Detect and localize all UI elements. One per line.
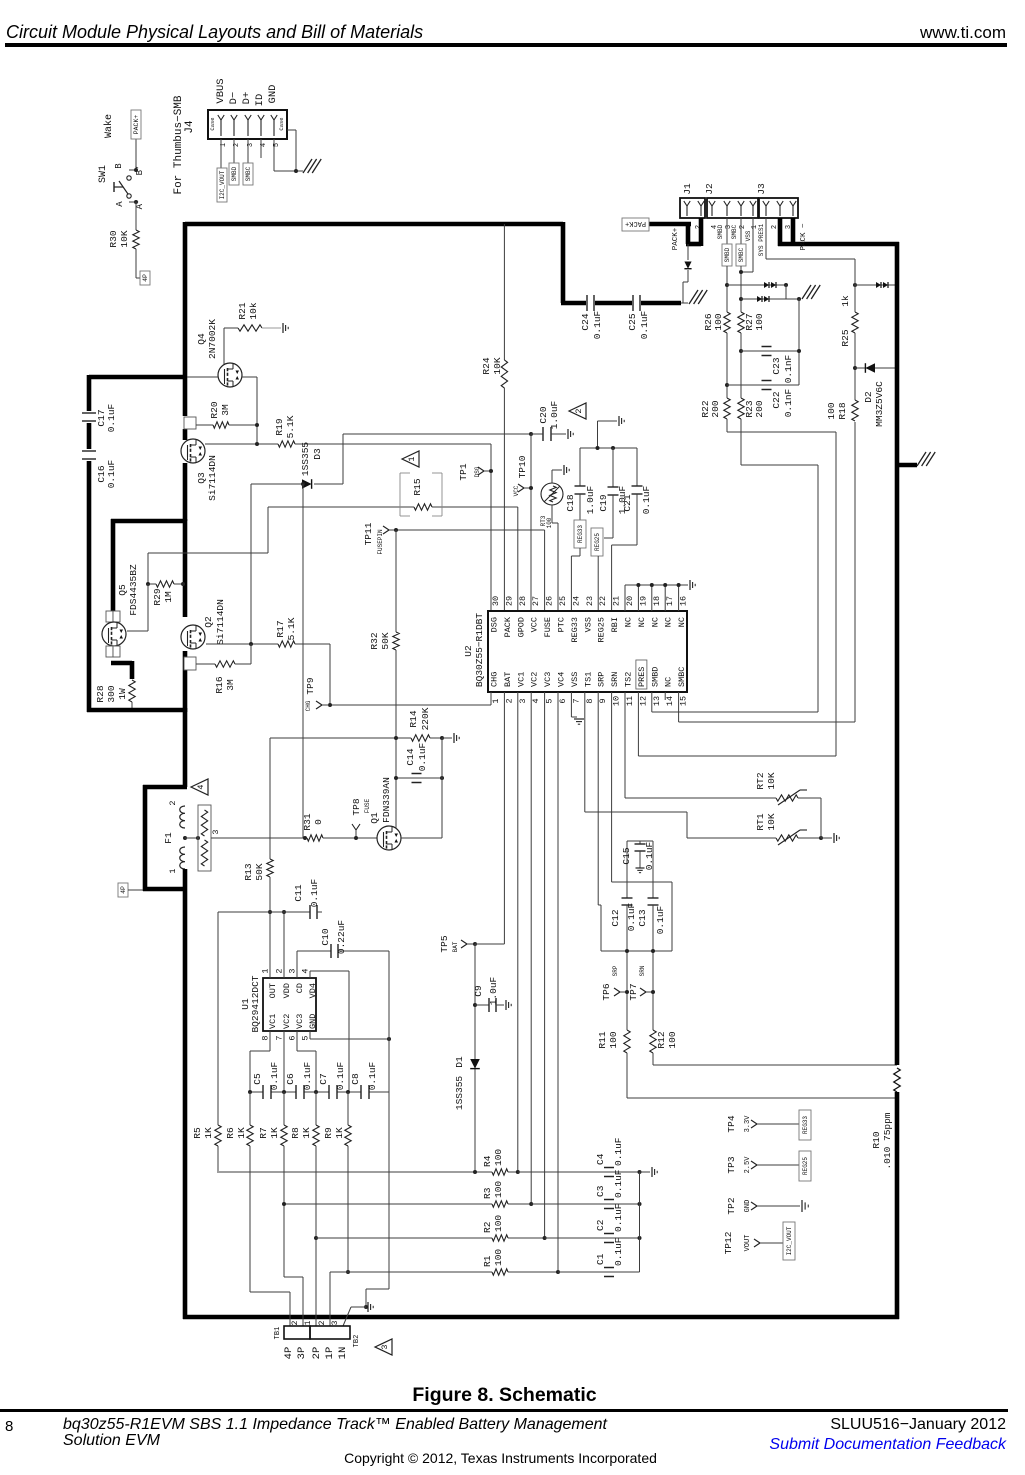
svg-text:VC2: VC2 [282,1014,292,1029]
svg-text:C10: C10 [320,928,331,945]
svg-text:TP10: TP10 [517,455,528,478]
svg-text:J1: J1 [682,183,693,195]
wire R29 to Q5 gate [147,584,149,631]
svg-text:3: 3 [211,829,221,834]
svg-text:R9: R9 [323,1127,334,1139]
svg-text:R8: R8 [290,1127,301,1139]
node R14 left [394,736,398,740]
wire NC stub [624,585,626,611]
svg-text:TP8: TP8 [351,798,362,815]
node SMBD C22 [725,383,729,387]
resistor R1 [492,1269,508,1275]
svg-text:10K: 10K [492,357,503,374]
resistor R8 [313,1125,319,1146]
wire pin2 BAT column [503,692,505,944]
pin of J1 [700,206,702,216]
diode pair row3 [876,282,881,288]
svg-text:0.1uF: 0.1uF [269,1061,280,1090]
svg-text:SRP: SRP [597,672,607,687]
svg-text:R29: R29 [152,588,163,605]
resistor R23 [738,398,744,419]
resistor R14 [411,735,430,741]
transistor Q3 [181,439,205,463]
connector TB2 [310,1326,350,1339]
wire diode to chain [687,270,689,282]
svg-text:1SS355: 1SS355 [454,1076,465,1111]
svg-text:R24: R24 [481,357,492,374]
resistor R22 [724,398,730,419]
wire B' stub [129,169,136,171]
node C2 right [638,1236,642,1240]
ground C4 row [651,1167,653,1177]
svg-text:200: 200 [710,400,721,417]
svg-text:2P: 2P [311,1347,323,1360]
svg-text:TP5: TP5 [439,935,450,952]
svg-text:Q4: Q4 [196,333,207,345]
svg-text:1.0uF: 1.0uF [488,976,499,1005]
svg-text:50K: 50K [380,632,391,649]
connector J3 [759,198,798,218]
node Q2 gate R16 [249,642,253,646]
resistor R9 [345,1125,351,1146]
svg-text:0.1uF: 0.1uF [302,1061,313,1090]
svg-text:DSG: DSG [474,466,481,477]
wire REG header riser [597,421,599,448]
svg-text:VCC: VCC [530,617,540,632]
wire NC stub [678,585,680,611]
wire pin8 TS1 column [584,692,586,812]
svg-text:0.1nF: 0.1nF [783,354,794,383]
wire row R1 [330,1271,492,1273]
svg-text:1.0uF: 1.0uF [585,485,596,514]
wire RT1 row [687,837,776,839]
wire J4 pin2 [233,139,235,163]
wire thick left border upper [183,222,188,416]
label REG25 boxed TP3 [799,1151,811,1181]
wire thick branch C17 [89,375,185,380]
svg-text:C11: C11 [293,884,304,901]
svg-text:24: 24 [571,596,581,606]
svg-text:SMBC: SMBC [731,224,738,239]
svg-text:2: 2 [318,1320,327,1325]
svg-text:100: 100 [493,1149,504,1166]
resistor R2 [492,1235,508,1241]
node D3 tap [301,482,305,486]
op-amp U1 body [263,978,316,1031]
wire cap row C5-C8 [250,1091,263,1093]
pin of J2 [752,206,754,216]
wire C19 to REG25 [612,495,614,538]
svg-text:1M: 1M [163,591,174,603]
svg-text:TB2: TB2 [353,1335,361,1348]
wire VSS net [752,218,754,272]
svg-text:NC: NC [664,617,674,627]
svg-text:C19: C19 [598,494,609,511]
label I2C_VOUT boxed TP12 [783,1222,795,1260]
svg-text:2: 2 [168,800,178,805]
flag triangle 1 [402,451,419,467]
label REG25 boxed [591,528,603,556]
node R2 pin [543,1236,547,1240]
wire R32 column [395,530,397,632]
node J4 ground [294,169,298,173]
wire R23 down [740,419,742,465]
svg-text:TP9: TP9 [305,677,316,694]
node TP7 [651,990,655,994]
svg-text:D−: D− [228,92,240,105]
svg-text:FUSE: FUSE [364,798,371,813]
wire thick bottom border [183,1315,899,1320]
wire SYS_PRES1 drop [765,218,767,259]
fuse F1 coil lower [180,847,185,869]
svg-text:9: 9 [598,698,608,703]
svg-text:C21: C21 [622,494,633,511]
wire TB2 pin3 diagonal [343,1307,351,1326]
wire R14 node col [395,705,397,778]
wire R28 to bottom bus [131,702,133,710]
svg-text:R14: R14 [408,710,419,727]
node R9 row1 [346,1270,350,1274]
svg-text:R12: R12 [656,1031,667,1048]
wire Q3 gate row [205,443,278,445]
wire D3 right riser [342,434,344,484]
pin 3 of J4 [247,120,249,136]
ground RT1 [833,833,835,843]
label SMBC boxed J2 [736,244,746,266]
svg-text:TP4: TP4 [726,1115,737,1132]
svg-text:C13: C13 [637,909,648,926]
wire R15 left riser [267,507,269,553]
wire C23 C22 right riser [798,299,800,385]
node NC [636,583,640,587]
wire REG33 to pin24 [579,548,581,556]
wire R24 to pin29 [503,388,505,611]
svg-text:CHG: CHG [490,672,500,687]
diode D2 zener [865,363,875,373]
wire PRES riser [835,432,837,756]
wire diode row 3 [855,284,897,286]
wire thick 4P detour left [143,785,148,891]
wire thick C24 drop [561,222,566,303]
node TP1 [489,469,493,473]
resistor R31 [307,835,323,841]
svg-text:8: 8 [585,698,595,703]
wire C13 column lower [652,905,654,1030]
label 4P boxed F1 [118,883,128,897]
svg-text:29: 29 [504,596,514,606]
svg-text:21: 21 [612,596,622,606]
svg-text:Wake: Wake [103,114,115,138]
wire R17 to riser [295,643,330,645]
capacitor C21 [636,448,638,486]
label PACK+ boxed top [622,218,649,231]
testpoint TP8 [352,824,356,830]
resistor R12 [650,1030,656,1053]
svg-text:VSS: VSS [570,672,580,687]
svg-text:C20: C20 [538,406,549,423]
wire pin3 VC1 column [517,692,519,1172]
svg-text:TS2: TS2 [624,672,634,687]
wire U1 pin3 CD [296,951,298,978]
wire TB gnd stub [351,1306,366,1308]
node R7 row3 [282,1202,286,1206]
svg-text:18: 18 [652,596,662,606]
wire J4 pin5 to ground [273,139,275,171]
resistor R19 [278,441,295,447]
capacitor C18 [579,448,581,486]
svg-text:VCC: VCC [513,485,520,496]
wire thick left border q3 [183,429,188,440]
svg-text:22: 22 [598,596,608,606]
wire row C4 [518,1171,640,1173]
svg-text:FDS4435BZ: FDS4435BZ [128,564,139,616]
svg-text:Q5: Q5 [117,584,128,596]
pin 5 of J4 [273,120,275,136]
thermistor RT1 [776,835,798,841]
svg-text:16: 16 [679,596,689,606]
svg-text:OUT: OUT [268,983,278,998]
wire C right riser [639,1172,641,1272]
ground PACK- [917,452,926,466]
svg-text:C9: C9 [473,985,484,997]
wire thick C24 seg1 [561,301,586,306]
svg-text:SYS PRES1: SYS PRES1 [758,223,765,256]
svg-text:FUSEPIN: FUSEPIN [377,529,384,555]
transistor Q1 [377,826,401,850]
wire pin6 VC4 column [557,692,559,1272]
wire R14 gnd stub [442,737,452,739]
capacitor C9 [475,1004,489,1006]
svg-text:F1: F1 [163,832,174,844]
resistor R25 [852,312,858,333]
svg-text:R13: R13 [243,863,254,880]
svg-text:J2: J2 [704,183,715,195]
wire TS1 riser [686,812,688,838]
svg-text:GND: GND [744,1200,752,1213]
wire RT3 bottom [551,505,553,523]
svg-text:100: 100 [493,1249,504,1266]
capacitor C2 [604,1233,614,1235]
svg-text:R5: R5 [192,1127,203,1139]
svg-text:0.1uF: 0.1uF [106,403,117,432]
svg-text:R31: R31 [302,813,313,830]
node pin5 rail [387,1037,391,1041]
wire thick bottom left bus [87,708,186,713]
testpoint TP1 [478,467,484,471]
wire thick PACK+ jog [686,222,691,244]
svg-text:PACK+: PACK+ [672,227,680,250]
resistor R17 [278,641,295,647]
node RT1 gnd [819,836,823,840]
testpoint TP12 [754,1239,760,1243]
resistor R18 [852,400,858,421]
svg-text:4: 4 [531,698,541,703]
wire pin12 PRES net [637,692,639,756]
svg-text:C3: C3 [595,1185,606,1197]
flag triangle 2 [569,403,586,419]
pin of J3 [792,206,794,216]
svg-text:TP2: TP2 [726,1197,737,1214]
testpoint TP10 [518,484,524,488]
wire pin5 VC3 column [544,692,546,1238]
svg-text:Q1: Q1 [369,812,380,824]
svg-text:12: 12 [638,696,648,706]
wire pin9 SRP column [597,692,599,905]
wire NC stub [651,585,653,611]
svg-text:C25: C25 [627,313,638,330]
capacitor C24 [586,295,588,311]
wire CHG riser [329,644,331,705]
wire NC stub [637,585,639,611]
svg-text:REG25: REG25 [597,617,607,643]
wire R7 jog [284,1276,303,1278]
wire R5 column [217,912,219,1125]
wire REG25 to pin22 [597,556,599,611]
wire C18 to REG33 [579,494,581,520]
svg-text:SRN: SRN [610,672,620,687]
svg-text:SMBD: SMBD [717,224,724,239]
node diode row2 [797,297,801,301]
wire FUSE drop to pin26 [544,530,546,611]
svg-text:GND: GND [308,1014,318,1029]
capacitor C13 [648,897,659,899]
resistor R10 [894,1068,900,1092]
svg-text:SMBC: SMBC [245,166,252,181]
svg-text:FUSE: FUSE [543,617,553,637]
wire R29 upper row [148,552,268,554]
switch SW1 [127,176,131,180]
svg-text:6: 6 [288,1035,298,1040]
wire SYS_PRES1 row [766,258,855,260]
node TP6 [625,990,629,994]
wire R31 row [211,837,307,839]
svg-text:2: 2 [291,1320,300,1325]
wire VCC row [343,433,531,435]
svg-text:DSG: DSG [490,617,500,632]
svg-text:C4: C4 [595,1153,606,1165]
svg-text:4: 4 [196,784,206,789]
svg-text:0.1uF: 0.1uF [613,1137,624,1166]
resistor R24 [501,360,507,388]
svg-text:TB1: TB1 [274,1327,282,1340]
wire R21 to ground [262,327,281,329]
node TP5 [473,942,477,946]
node VDD C11 [282,910,286,914]
wire A' to R30 [135,202,137,230]
svg-text:Q2: Q2 [203,616,214,628]
connector J1 [680,198,705,218]
svg-text:B: B [114,163,124,169]
wire R6 column [249,1092,251,1125]
wire Q2 gate row [206,643,278,645]
svg-text:0.1uF: 0.1uF [417,742,428,771]
connector TB1 [284,1326,310,1339]
node R31 left [303,836,307,840]
svg-text:NC: NC [664,677,674,687]
wire VD4 drop [348,971,350,1092]
svg-text:19: 19 [638,596,648,606]
testpoint TP6 [614,988,620,992]
svg-text:RBI: RBI [610,617,620,632]
capacitor C22 [727,384,799,386]
node VCC TP10 top [529,432,533,436]
node R29 left [146,582,150,586]
svg-text:C23: C23 [771,357,782,374]
wire C12 block left [598,904,601,906]
svg-text:100: 100 [493,1215,504,1232]
svg-text:PACK+: PACK+ [625,219,646,227]
label I2C_VOUT boxed [217,168,227,202]
resistor R30 [133,230,139,249]
svg-text:Si7114DN: Si7114DN [207,455,218,501]
resistor R28 [129,680,135,702]
capacitor C4 [604,1167,614,1169]
svg-text:28: 28 [518,596,528,606]
wire C4 gnd stub [640,1171,651,1173]
node C14 right [440,776,444,780]
svg-text:17: 17 [665,596,675,606]
svg-text:11: 11 [625,696,635,706]
svg-text:13: 13 [652,696,662,706]
notch R20 [184,417,196,429]
wire R6 jog [250,1291,290,1293]
pin of J3 [765,206,767,216]
wire row R4 [217,1171,492,1173]
wire R29 stubs [148,583,156,585]
svg-text:0.1uF: 0.1uF [639,310,650,339]
wire pin1 CHG stub [490,692,492,705]
wire C12 block rail [601,950,672,952]
label SMBD boxed J2 [722,244,732,266]
svg-text:R28: R28 [95,685,106,702]
svg-text:C18: C18 [565,494,576,511]
svg-text:NC: NC [650,617,660,627]
svg-text:5.1K: 5.1K [286,617,297,640]
wire GPOD drop [517,507,519,611]
notch R16 [184,657,196,670]
svg-text:1P: 1P [324,1347,336,1360]
svg-text:VC4: VC4 [557,672,567,687]
node NC [677,583,681,587]
wire J4 pin1 [220,139,222,168]
svg-text:REG25: REG25 [594,533,601,551]
svg-text:0.1uF: 0.1uF [655,905,666,934]
diode D1 [470,1059,480,1069]
svg-text:GND: GND [267,85,279,104]
diode D3 [302,479,312,489]
svg-text:VSS: VSS [745,230,752,241]
wire Q4 source to border [187,376,218,378]
node C3 right [638,1202,642,1206]
label SMBD boxed [229,163,239,185]
svg-text:C2: C2 [595,1219,606,1231]
resistor R32 [393,632,399,650]
wire thick left border Q2 upper [183,519,188,617]
svg-text:.010 75ppm: .010 75ppm [882,1112,893,1169]
wire R11 to R10 bottom [626,1053,628,1098]
wire SMBD pin stub [726,218,728,244]
wire U1 pin7 [283,1031,285,1092]
svg-text:7: 7 [571,698,581,703]
wire D3 row [251,483,304,485]
svg-text:100: 100 [493,1181,504,1198]
svg-text:C1: C1 [595,1253,606,1265]
svg-text:BQ29412DCT: BQ29412DCT [250,975,261,1032]
svg-text:4: 4 [301,968,311,973]
ground VSS pin7 [574,718,584,720]
wire R24 column [503,224,505,360]
svg-text:D2: D2 [863,391,874,403]
